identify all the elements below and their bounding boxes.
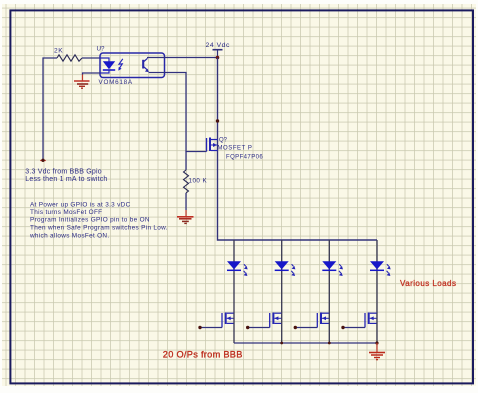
svg-text:24 Vdc: 24 Vdc [206, 42, 231, 49]
svg-text:Various Loads: Various Loads [400, 279, 456, 288]
wire: M1 gate stub [198, 326, 222, 329]
resistor R? 100 K [184, 170, 208, 193]
wire: left GPIO wire (vertical + top horizontal) [43, 58, 57, 161]
wire: M2 gate stub [246, 326, 270, 329]
wire: 100K to ground [185, 193, 187, 210]
svg-text:VOM618A: VOM618A [99, 79, 133, 86]
transistor M4 (N-MOSFET) [365, 313, 377, 344]
svg-text:Program Initializes GPIO pin t: Program Initializes GPIO pin to be ON [30, 217, 150, 224]
label: Various Loads [400, 279, 456, 288]
wire: bottom source rail [234, 341, 379, 344]
LED inside optocoupler [100, 58, 115, 73]
svg-text:MOSFET P: MOSFET P [218, 146, 253, 152]
transistor M3 (N-MOSFET) [317, 313, 329, 344]
note: 3.3 Vdc text block [25, 169, 107, 183]
LED D3 column [322, 240, 343, 313]
junction on rail above P-MOSFET [216, 119, 219, 122]
op-amp U? optocoupler VOM618A box [97, 45, 165, 85]
svg-text:2K: 2K [54, 48, 63, 55]
wire: opto collector to 24V rail [165, 57, 218, 59]
wire: M3 gate stub [294, 326, 318, 329]
transistor M1 (N-MOSFET) [222, 313, 234, 344]
svg-text:At Power up GPIO is at 3.3 vDC: At Power up GPIO is at 3.3 vDC [30, 201, 131, 208]
wire: resistor to optocoupler anode [82, 57, 100, 59]
wire: 24V rail vertical down and across to loads [218, 58, 378, 241]
ground at bottom rail [369, 343, 385, 360]
label: 20 O/Ps from BBB [163, 350, 243, 360]
transistor Q? P-MOSFET FQPF47P06 [207, 138, 264, 161]
junction at 24V rail / collector [216, 56, 220, 60]
LED D1 column [227, 240, 248, 313]
wire: opto cathode to ground [83, 73, 101, 81]
svg-text:This turns MosFet OFF: This turns MosFet OFF [30, 209, 102, 216]
svg-text:100 K: 100 K [189, 178, 208, 185]
svg-text:3.3 Vdc from BBB Gpio: 3.3 Vdc from BBB Gpio [25, 169, 102, 176]
resistor R? 2K [54, 48, 82, 62]
svg-text:U?: U? [97, 45, 105, 52]
svg-text:20 O/Ps from BBB: 20 O/Ps from BBB [163, 350, 243, 360]
node: GPIO input terminal (red tick + dot) [40, 159, 46, 162]
LED D4 column [370, 240, 391, 313]
svg-text:Q?: Q? [219, 138, 228, 144]
ground below 100K [177, 210, 194, 223]
transistor M2 (N-MOSFET) [270, 313, 282, 344]
light arrow (lightning bolt) inside optocoupler [118, 59, 123, 71]
svg-text:FQPF47P06: FQPF47P06 [226, 154, 263, 160]
ground below optocoupler LED [74, 81, 90, 88]
wire: gate node down to 100K resistor [185, 152, 187, 171]
power port 24 Vdc [206, 42, 231, 58]
LED D2 column [275, 240, 296, 313]
svg-text:Less then 1 mA to switch: Less then 1 mA to switch [25, 176, 107, 183]
note: power-up behaviour text block [29, 201, 168, 239]
svg-text:Then when Safe Program switch: Then when Safe Program switches Pin Low. [30, 225, 168, 232]
wire: opto emitter down to gate node [165, 73, 207, 152]
svg-text:which allows MosFet ON.: which allows MosFet ON. [29, 232, 109, 239]
phototransistor inside optocoupler [143, 58, 164, 73]
wire: M4 gate stub [341, 326, 365, 329]
